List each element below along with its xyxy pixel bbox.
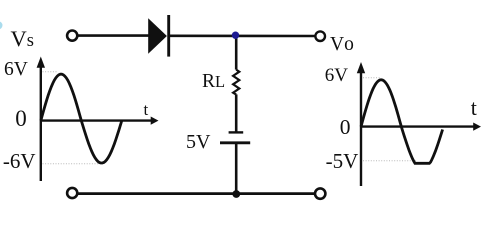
svg-text:6V: 6V: [325, 65, 349, 86]
svg-text:6V: 6V: [4, 59, 28, 80]
svg-text:t: t: [471, 95, 477, 120]
svg-text:t: t: [144, 100, 149, 119]
svg-text:0: 0: [15, 106, 27, 131]
svg-text:RL: RL: [202, 71, 225, 92]
svg-text:-6V: -6V: [3, 149, 36, 173]
svg-text:Vo: Vo: [330, 34, 354, 55]
svg-text:5V: 5V: [186, 131, 211, 153]
svg-text:Vs: Vs: [11, 26, 34, 51]
svg-text:-5V: -5V: [326, 149, 359, 173]
svg-text:0: 0: [340, 115, 351, 139]
